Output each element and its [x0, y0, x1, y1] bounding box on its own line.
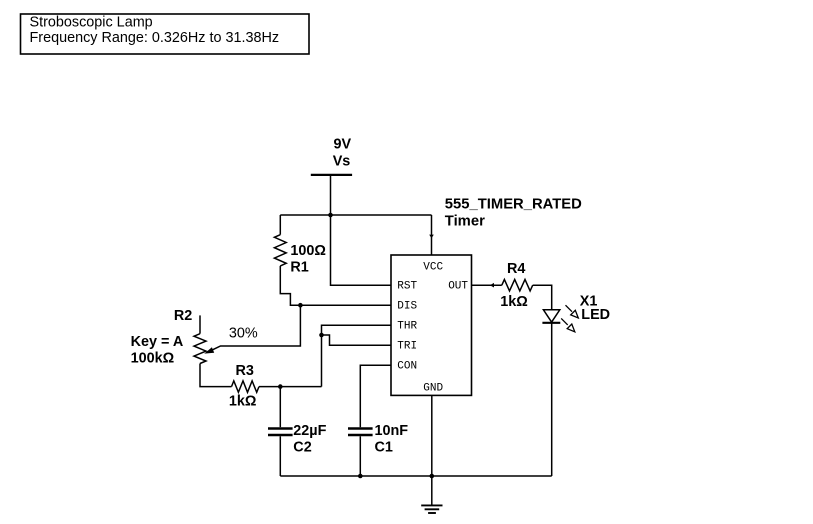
- svg-text:Frequency Range: 0.326Hz to 31: Frequency Range: 0.326Hz to 31.38Hz: [30, 30, 280, 46]
- svg-text:C2: C2: [293, 440, 311, 456]
- svg-text:RST: RST: [397, 280, 417, 292]
- svg-text:10nF: 10nF: [375, 423, 409, 439]
- svg-text:R2: R2: [174, 308, 192, 324]
- svg-text:R1: R1: [290, 260, 308, 276]
- svg-text:1kΩ: 1kΩ: [229, 393, 257, 409]
- svg-text:R4: R4: [507, 261, 525, 277]
- svg-text:OUT: OUT: [448, 280, 468, 292]
- svg-text:DIS: DIS: [397, 300, 417, 312]
- svg-text:CON: CON: [397, 360, 417, 372]
- svg-text:GND: GND: [423, 383, 443, 395]
- svg-text:TRI: TRI: [397, 340, 417, 352]
- svg-text:LED: LED: [581, 307, 610, 323]
- svg-text:22µF: 22µF: [293, 423, 326, 439]
- svg-text:9V: 9V: [333, 136, 351, 152]
- svg-text:Timer: Timer: [445, 214, 485, 230]
- svg-text:100kΩ: 100kΩ: [131, 351, 175, 367]
- svg-text:555_TIMER_RATED: 555_TIMER_RATED: [445, 197, 582, 213]
- svg-text:VCC: VCC: [423, 262, 443, 274]
- svg-text:Stroboscopic Lamp: Stroboscopic Lamp: [30, 14, 153, 30]
- svg-text:R3: R3: [236, 363, 254, 379]
- svg-text:Vs: Vs: [333, 154, 351, 170]
- svg-text:Key = A: Key = A: [131, 334, 184, 350]
- svg-text:1kΩ: 1kΩ: [500, 294, 528, 310]
- svg-text:30%: 30%: [229, 325, 258, 341]
- svg-text:100Ω: 100Ω: [290, 243, 326, 259]
- svg-text:THR: THR: [397, 320, 417, 332]
- svg-text:C1: C1: [375, 440, 393, 456]
